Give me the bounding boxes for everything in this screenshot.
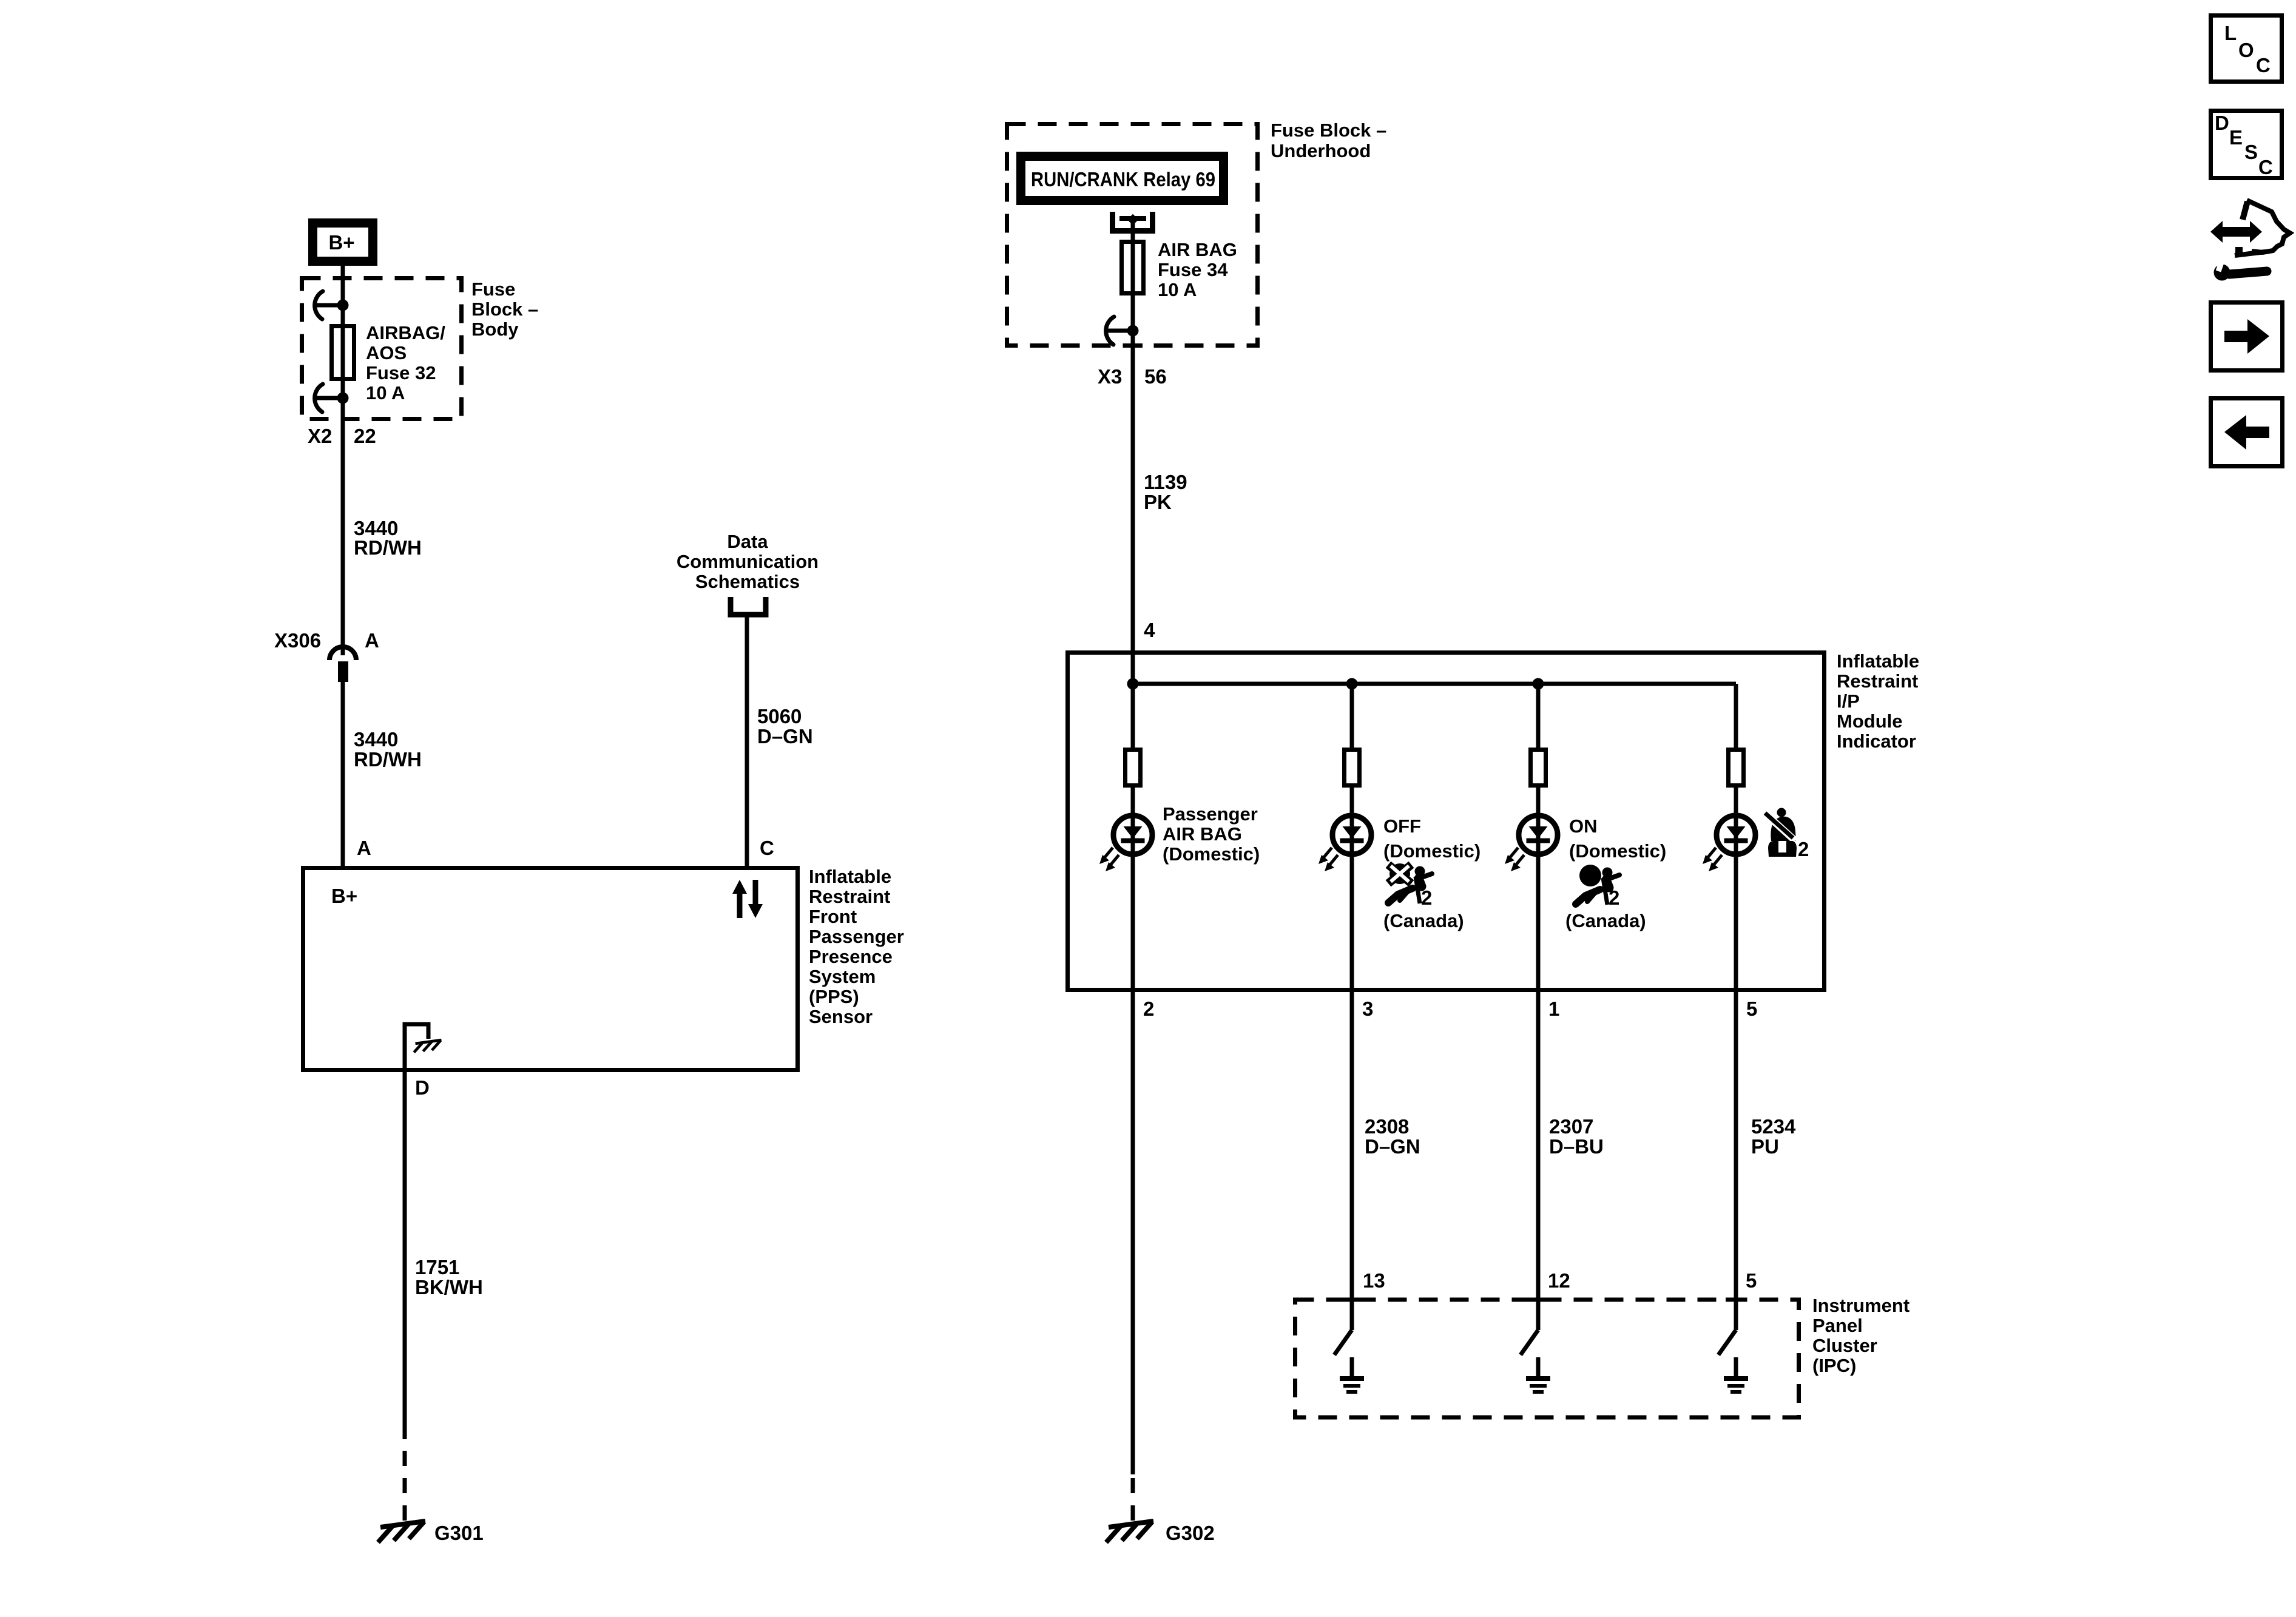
junction dot, fuse 34 load side <box>1127 325 1139 337</box>
svg-text:Data: Data <box>727 531 768 552</box>
wire label 3440 RD/WH upper <box>354 517 422 559</box>
bidirectional data arrows inside PPS <box>732 880 763 918</box>
svg-text:12: 12 <box>1548 1269 1570 1292</box>
value label AIRBAG/AOS Fuse 32 10 A <box>366 322 445 403</box>
switch S3 to ground (pin 5) <box>1718 1330 1748 1392</box>
svg-text:Presence: Presence <box>809 946 893 967</box>
svg-text:13: 13 <box>1363 1269 1385 1292</box>
svg-text:G301: G301 <box>434 1522 484 1544</box>
label Fuse Block - Underhood <box>1271 120 1386 161</box>
wire label 5060 D-GN <box>757 705 813 748</box>
terminal clip, fuse 32 line side <box>315 291 343 319</box>
junction dot, fuse 32 load side <box>337 393 349 404</box>
svg-text:O: O <box>2238 39 2254 61</box>
wire X306 to PPS sensor pin A <box>341 682 345 868</box>
junction dot, fuse 32 line side <box>337 300 349 311</box>
fuse block underhood enclosure (dashed) <box>1007 124 1258 346</box>
svg-text:(Domestic): (Domestic) <box>1569 840 1666 862</box>
off-page reference Data Communication Schematics <box>677 531 819 615</box>
svg-text:(Canada): (Canada) <box>1383 910 1464 931</box>
svg-text:BK/WH: BK/WH <box>415 1276 483 1298</box>
svg-text:2: 2 <box>1798 838 1809 860</box>
seatbelt pictograph <box>1765 808 1809 861</box>
instrument panel cluster enclosure (dashed) <box>1295 1300 1799 1417</box>
wire 1751 from PPS pin D (solid) <box>403 1070 407 1439</box>
junction dot bus at branch 2 <box>1127 678 1139 690</box>
wire label 1139 PK <box>1144 471 1187 513</box>
fuse F32 AIRBAG/AOS 10 A <box>332 326 354 379</box>
switch S1 to ground (pin 13) <box>1334 1330 1364 1392</box>
LED D1 passenger air bag indicator <box>1099 815 1152 871</box>
svg-text:A: A <box>357 837 371 859</box>
LED D3 on indicator <box>1505 815 1558 871</box>
svg-text:Fuse Block –: Fuse Block – <box>1271 120 1386 141</box>
resistor R3 (on branch) <box>1531 750 1546 786</box>
next page arrow box <box>2211 303 2283 371</box>
svg-text:L: L <box>2224 22 2237 44</box>
PPS internal chassis ground <box>405 1024 441 1068</box>
svg-text:(Domestic): (Domestic) <box>1383 840 1481 862</box>
wire branch pin 5 <box>1734 684 1738 1330</box>
svg-text:Restraint: Restraint <box>1837 670 1918 692</box>
svg-text:X306: X306 <box>274 629 321 652</box>
svg-text:Underhood: Underhood <box>1271 140 1371 161</box>
svg-text:C: C <box>2256 54 2271 76</box>
svg-text:System: System <box>809 966 876 987</box>
previous page arrow box <box>2211 399 2283 467</box>
resistor R1 (passenger air bag branch) <box>1126 750 1141 786</box>
svg-text:56: 56 <box>1144 365 1167 388</box>
svg-text:D: D <box>2215 112 2229 134</box>
svg-text:OFF: OFF <box>1383 815 1421 837</box>
wire data link to PPS pin C <box>745 615 749 868</box>
fuse F34 AIR BAG 10 A <box>1122 242 1144 294</box>
svg-text:10 A: 10 A <box>1158 279 1197 300</box>
ground G302 <box>1106 1521 1153 1542</box>
internal bus wire <box>1133 682 1736 686</box>
fuse block - body enclosure (dashed) <box>302 279 462 419</box>
wire branch pin 1 <box>1536 684 1541 1330</box>
label Fuse Block - Body <box>471 279 538 340</box>
svg-text:1751: 1751 <box>415 1256 459 1278</box>
svg-text:3440: 3440 <box>354 728 398 751</box>
svg-text:A: A <box>365 629 379 652</box>
svg-text:D–GN: D–GN <box>1365 1135 1420 1158</box>
power symbol B+ battery feed <box>313 223 373 262</box>
wire through fuse 32 down to connector X2 <box>341 305 345 655</box>
airbag-on pictograph (Canada) <box>1565 865 1646 931</box>
svg-text:2307: 2307 <box>1549 1115 1593 1138</box>
border tick wire 12 enters IPC <box>1528 1298 1548 1302</box>
wire label 5234 PU <box>1751 1115 1796 1158</box>
wire label 2308 D-GN <box>1365 1115 1420 1158</box>
svg-text:C: C <box>760 837 774 859</box>
svg-text:2: 2 <box>1143 998 1154 1020</box>
svg-text:Restraint: Restraint <box>809 886 890 907</box>
svg-text:I/P: I/P <box>1837 690 1860 712</box>
svg-text:S: S <box>2244 141 2258 163</box>
svg-text:Module: Module <box>1837 711 1903 732</box>
svg-text:1139: 1139 <box>1144 471 1187 493</box>
svg-text:AIR BAG: AIR BAG <box>1158 239 1237 260</box>
diagnostic hand and wrench icon <box>2210 200 2290 281</box>
svg-text:Passenger: Passenger <box>809 926 904 947</box>
svg-text:(Canada): (Canada) <box>1565 910 1646 931</box>
svg-text:2: 2 <box>1609 886 1619 909</box>
wire dashed tail to G302 <box>1131 1474 1135 1521</box>
svg-text:2308: 2308 <box>1365 1115 1409 1138</box>
label Passenger AIR BAG (Domestic) <box>1163 803 1260 865</box>
svg-text:AOS: AOS <box>366 342 407 363</box>
svg-text:2: 2 <box>1421 886 1432 909</box>
junction dot bus at branch 3 <box>1346 678 1358 690</box>
junction dot bus at branch 1 <box>1533 678 1544 690</box>
relay K69 RUN/CRANK Relay 69 <box>1021 157 1224 201</box>
svg-text:5: 5 <box>1746 998 1757 1020</box>
label Inflatable Restraint I/P Module Indicator <box>1837 650 1919 752</box>
resistor R4 (seatbelt branch) <box>1729 750 1744 786</box>
svg-text:(IPC): (IPC) <box>1812 1355 1856 1376</box>
wire label 2307 D-BU <box>1549 1115 1604 1158</box>
LED D4 fasten seatbelt indicator <box>1703 815 1755 871</box>
svg-text:Fuse 32: Fuse 32 <box>366 362 436 383</box>
svg-text:Fuse 34: Fuse 34 <box>1158 259 1228 280</box>
svg-text:B+: B+ <box>328 231 354 254</box>
svg-text:X2: X2 <box>308 425 332 447</box>
svg-text:Fuse: Fuse <box>471 279 515 300</box>
svg-text:Passenger: Passenger <box>1163 803 1258 825</box>
svg-text:G302: G302 <box>1166 1522 1215 1544</box>
svg-text:D: D <box>415 1076 430 1099</box>
svg-text:D–BU: D–BU <box>1549 1135 1604 1158</box>
airbag-off pictograph with crossed circle (Canada) <box>1383 863 1464 931</box>
svg-text:Sensor: Sensor <box>809 1006 873 1027</box>
svg-text:Communication: Communication <box>677 551 819 572</box>
terminal clip, fuse 32 load side <box>315 384 343 412</box>
border tick where wire exits underhood block <box>1123 343 1143 348</box>
svg-text:Front: Front <box>809 906 857 927</box>
svg-text:Schematics: Schematics <box>695 571 800 592</box>
terminal clip, fuse 34 load side <box>1106 317 1133 345</box>
svg-text:RD/WH: RD/WH <box>354 748 422 771</box>
svg-text:1: 1 <box>1548 998 1559 1020</box>
svg-text:Block –: Block – <box>471 299 538 320</box>
label Instrument Panel Cluster (IPC) <box>1812 1295 1909 1376</box>
border tick wire 5 enters IPC <box>1726 1298 1746 1302</box>
label ON (Domestic) <box>1569 815 1666 862</box>
svg-text:5060: 5060 <box>757 705 802 727</box>
svg-text:22: 22 <box>354 425 376 447</box>
svg-text:Instrument: Instrument <box>1812 1295 1909 1316</box>
svg-text:D–GN: D–GN <box>757 725 813 748</box>
svg-text:10 A: 10 A <box>366 382 405 403</box>
inline connector X306 <box>329 647 356 682</box>
svg-text:Inflatable: Inflatable <box>1837 650 1919 672</box>
wire B+ to fuse block body <box>341 266 345 305</box>
wire label 1751 BK/WH <box>415 1256 483 1298</box>
svg-text:PU: PU <box>1751 1135 1779 1158</box>
svg-text:5234: 5234 <box>1751 1115 1796 1138</box>
DESC reference box <box>2211 111 2282 179</box>
svg-text:RUN/CRANK Relay 69: RUN/CRANK Relay 69 <box>1031 168 1215 191</box>
border tick wire 13 enters IPC <box>1342 1298 1362 1302</box>
LED D2 off indicator <box>1319 815 1371 871</box>
svg-text:E: E <box>2229 126 2243 149</box>
label OFF (Domestic) <box>1383 815 1481 862</box>
LOC reference box <box>2211 16 2282 82</box>
svg-text:ON: ON <box>1569 815 1598 837</box>
resistor R2 (off branch) <box>1345 750 1360 786</box>
svg-text:5: 5 <box>1746 1269 1757 1292</box>
svg-text:AIR BAG: AIR BAG <box>1163 823 1242 845</box>
svg-text:Cluster: Cluster <box>1812 1335 1877 1356</box>
svg-text:C: C <box>2258 156 2273 178</box>
switch S2 to ground (pin 12) <box>1521 1330 1550 1392</box>
svg-text:Body: Body <box>471 319 519 340</box>
wire 1751 dashed tail to G301 <box>403 1439 407 1521</box>
PPS sensor box U1 <box>303 868 798 1070</box>
svg-text:B+: B+ <box>331 885 357 907</box>
svg-text:(PPS): (PPS) <box>809 986 859 1007</box>
svg-text:Inflatable: Inflatable <box>809 866 891 887</box>
svg-text:PK: PK <box>1144 491 1172 513</box>
ground G301 <box>378 1521 425 1542</box>
label Inflatable Restraint Front Passenger Presence System (PPS) Sensor <box>809 866 904 1027</box>
svg-text:AIRBAG/: AIRBAG/ <box>366 322 445 343</box>
relay output terminal bracket <box>1110 212 1155 231</box>
svg-text:(Domestic): (Domestic) <box>1163 843 1260 865</box>
svg-text:Indicator: Indicator <box>1837 731 1916 752</box>
svg-text:X3: X3 <box>1098 365 1122 388</box>
wire branch pin 3 <box>1350 684 1354 1330</box>
svg-text:4: 4 <box>1144 619 1155 641</box>
wire label 3440 RD/WH lower <box>354 728 422 771</box>
inflatable restraint I/P module indicator box U2 <box>1068 653 1825 990</box>
wire relay output through fuse 34 and module to G302 (solid trunk) <box>1131 220 1135 1474</box>
value label AIR BAG Fuse 34 10 A <box>1158 239 1237 300</box>
svg-text:RD/WH: RD/WH <box>354 536 422 559</box>
svg-text:Panel: Panel <box>1812 1315 1863 1336</box>
svg-text:3: 3 <box>1362 998 1373 1020</box>
junction dot at relay output <box>1127 214 1138 225</box>
